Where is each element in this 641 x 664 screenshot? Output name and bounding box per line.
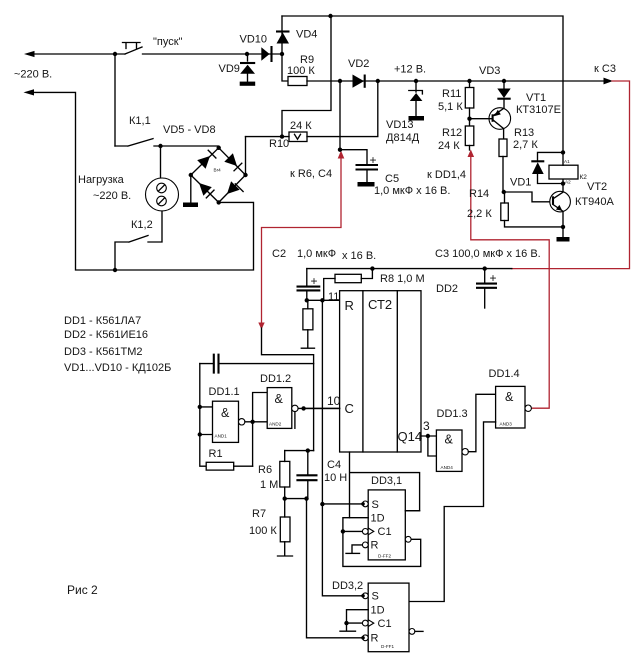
svg-text:"пуск": "пуск" bbox=[153, 36, 183, 48]
svg-text:КТ3107Е: КТ3107Е bbox=[516, 104, 561, 116]
svg-text:А1: А1 bbox=[564, 159, 570, 164]
svg-text:R11: R11 bbox=[442, 88, 461, 100]
svg-text:R1: R1 bbox=[209, 448, 223, 460]
svg-text:DD2 - К561ИЕ16: DD2 - К561ИЕ16 bbox=[64, 329, 148, 341]
svg-text:VD4: VD4 bbox=[296, 29, 317, 41]
svg-text:+: + bbox=[370, 153, 377, 167]
svg-text:+: + bbox=[311, 274, 318, 288]
svg-text:AND2: AND2 bbox=[269, 422, 282, 427]
svg-text:DD3,2: DD3,2 bbox=[332, 580, 363, 592]
svg-text:DD1.2: DD1.2 bbox=[260, 373, 291, 385]
svg-text:R: R bbox=[371, 633, 379, 645]
svg-text:VD3: VD3 bbox=[479, 65, 500, 77]
svg-text:VD1...VD10 - КД102Б: VD1...VD10 - КД102Б bbox=[64, 362, 171, 374]
svg-text:R14: R14 bbox=[469, 188, 489, 200]
svg-text:DD3 - К561ТМ2: DD3 - К561ТМ2 bbox=[64, 346, 143, 358]
svg-text:VD13: VD13 bbox=[386, 119, 414, 131]
svg-text:&: & bbox=[445, 433, 454, 447]
svg-text:24 К: 24 К bbox=[290, 120, 312, 132]
svg-text:D-FF1: D-FF1 bbox=[381, 644, 394, 649]
svg-text:R13: R13 bbox=[514, 127, 534, 139]
svg-text:К1,2: К1,2 bbox=[131, 219, 153, 231]
svg-text:DD1.3: DD1.3 bbox=[437, 408, 468, 420]
svg-text:&: & bbox=[505, 390, 514, 404]
svg-text:AND3: AND3 bbox=[500, 422, 513, 427]
svg-text:S: S bbox=[372, 499, 379, 511]
svg-text:VD1: VD1 bbox=[510, 177, 531, 189]
svg-text:10: 10 bbox=[327, 394, 341, 408]
svg-text:х 16 В.: х 16 В. bbox=[342, 250, 376, 262]
svg-text:R10: R10 bbox=[269, 138, 289, 150]
svg-text:10 Н: 10 Н bbox=[324, 472, 347, 484]
svg-text:+12 В.: +12 В. bbox=[394, 64, 426, 76]
svg-text:А2: А2 bbox=[565, 180, 571, 185]
svg-text:1D: 1D bbox=[371, 513, 385, 525]
svg-text:D-FF2: D-FF2 bbox=[378, 554, 391, 559]
svg-text:+: + bbox=[490, 271, 497, 285]
svg-text:Br4: Br4 bbox=[214, 168, 222, 173]
svg-text:СТ2: СТ2 bbox=[368, 297, 392, 312]
svg-text:Q14: Q14 bbox=[398, 429, 423, 444]
svg-text:AND4: AND4 bbox=[441, 465, 454, 470]
svg-text:&: & bbox=[275, 392, 284, 406]
svg-text:VD2: VD2 bbox=[348, 58, 369, 70]
svg-text:S: S bbox=[372, 591, 379, 603]
svg-text:~220 В.: ~220 В. bbox=[14, 69, 52, 81]
svg-text:к R6, С4: к R6, С4 bbox=[290, 168, 332, 180]
svg-text:С5: С5 bbox=[385, 173, 399, 185]
svg-text:2,2 К: 2,2 К bbox=[467, 208, 492, 220]
svg-text:К2: К2 bbox=[580, 174, 588, 181]
svg-text:к DD1,4: к DD1,4 bbox=[427, 169, 466, 181]
svg-text:~220 В.: ~220 В. bbox=[93, 190, 131, 202]
svg-text:1D: 1D bbox=[371, 605, 385, 617]
svg-text:к С3: к С3 bbox=[594, 63, 616, 75]
svg-text:VD5 - VD8: VD5 - VD8 bbox=[163, 124, 216, 136]
svg-text:1,0 мкФ х 16 В.: 1,0 мкФ х 16 В. bbox=[374, 185, 450, 197]
svg-text:24 К: 24 К bbox=[438, 140, 460, 152]
svg-text:DD1 - К561ЛА7: DD1 - К561ЛА7 bbox=[64, 315, 141, 327]
svg-text:C: C bbox=[345, 401, 354, 416]
svg-text:К1,1: К1,1 bbox=[129, 115, 151, 127]
svg-text:100 К: 100 К bbox=[249, 525, 277, 537]
svg-text:R8 1,0 М: R8 1,0 М bbox=[380, 273, 425, 285]
svg-text:1 М: 1 М bbox=[260, 479, 278, 491]
svg-text:DD1.4: DD1.4 bbox=[489, 368, 520, 380]
svg-text:&: & bbox=[221, 406, 230, 420]
svg-text:Нагрузка: Нагрузка bbox=[78, 174, 125, 186]
svg-text:С3 100,0 мкФ х 16 В.: С3 100,0 мкФ х 16 В. bbox=[435, 248, 541, 260]
svg-text:VT2: VT2 bbox=[587, 181, 607, 193]
svg-text:100 К: 100 К bbox=[287, 65, 315, 77]
svg-text:11: 11 bbox=[328, 291, 339, 303]
svg-text:R7: R7 bbox=[252, 508, 266, 520]
svg-text:3: 3 bbox=[423, 419, 430, 433]
svg-text:C1: C1 bbox=[378, 618, 392, 630]
svg-text:КТ940А: КТ940А bbox=[575, 196, 614, 208]
svg-text:С2: С2 bbox=[272, 248, 286, 260]
svg-text:R: R bbox=[345, 298, 354, 313]
svg-text:R: R bbox=[371, 540, 379, 552]
svg-text:R12: R12 bbox=[442, 127, 462, 139]
svg-text:2,7 К: 2,7 К bbox=[513, 139, 538, 151]
svg-text:DD3,1: DD3,1 bbox=[371, 475, 402, 487]
svg-text:1,0 мкФ: 1,0 мкФ bbox=[297, 248, 336, 260]
svg-text:C4: C4 bbox=[327, 459, 341, 471]
svg-text:AND1: AND1 bbox=[215, 434, 228, 439]
svg-text:5,1 К: 5,1 К bbox=[438, 101, 463, 113]
svg-text:Д814Д: Д814Д bbox=[386, 132, 420, 144]
svg-text:VD9: VD9 bbox=[219, 63, 240, 75]
svg-text:DD2: DD2 bbox=[436, 283, 458, 295]
svg-text:C1: C1 bbox=[378, 526, 392, 538]
svg-text:Рис 2: Рис 2 bbox=[67, 583, 98, 597]
svg-text:VD10: VD10 bbox=[240, 34, 268, 46]
svg-text:VT1: VT1 bbox=[526, 92, 546, 104]
svg-text:DD1.1: DD1.1 bbox=[209, 386, 240, 398]
svg-text:R6: R6 bbox=[258, 464, 272, 476]
